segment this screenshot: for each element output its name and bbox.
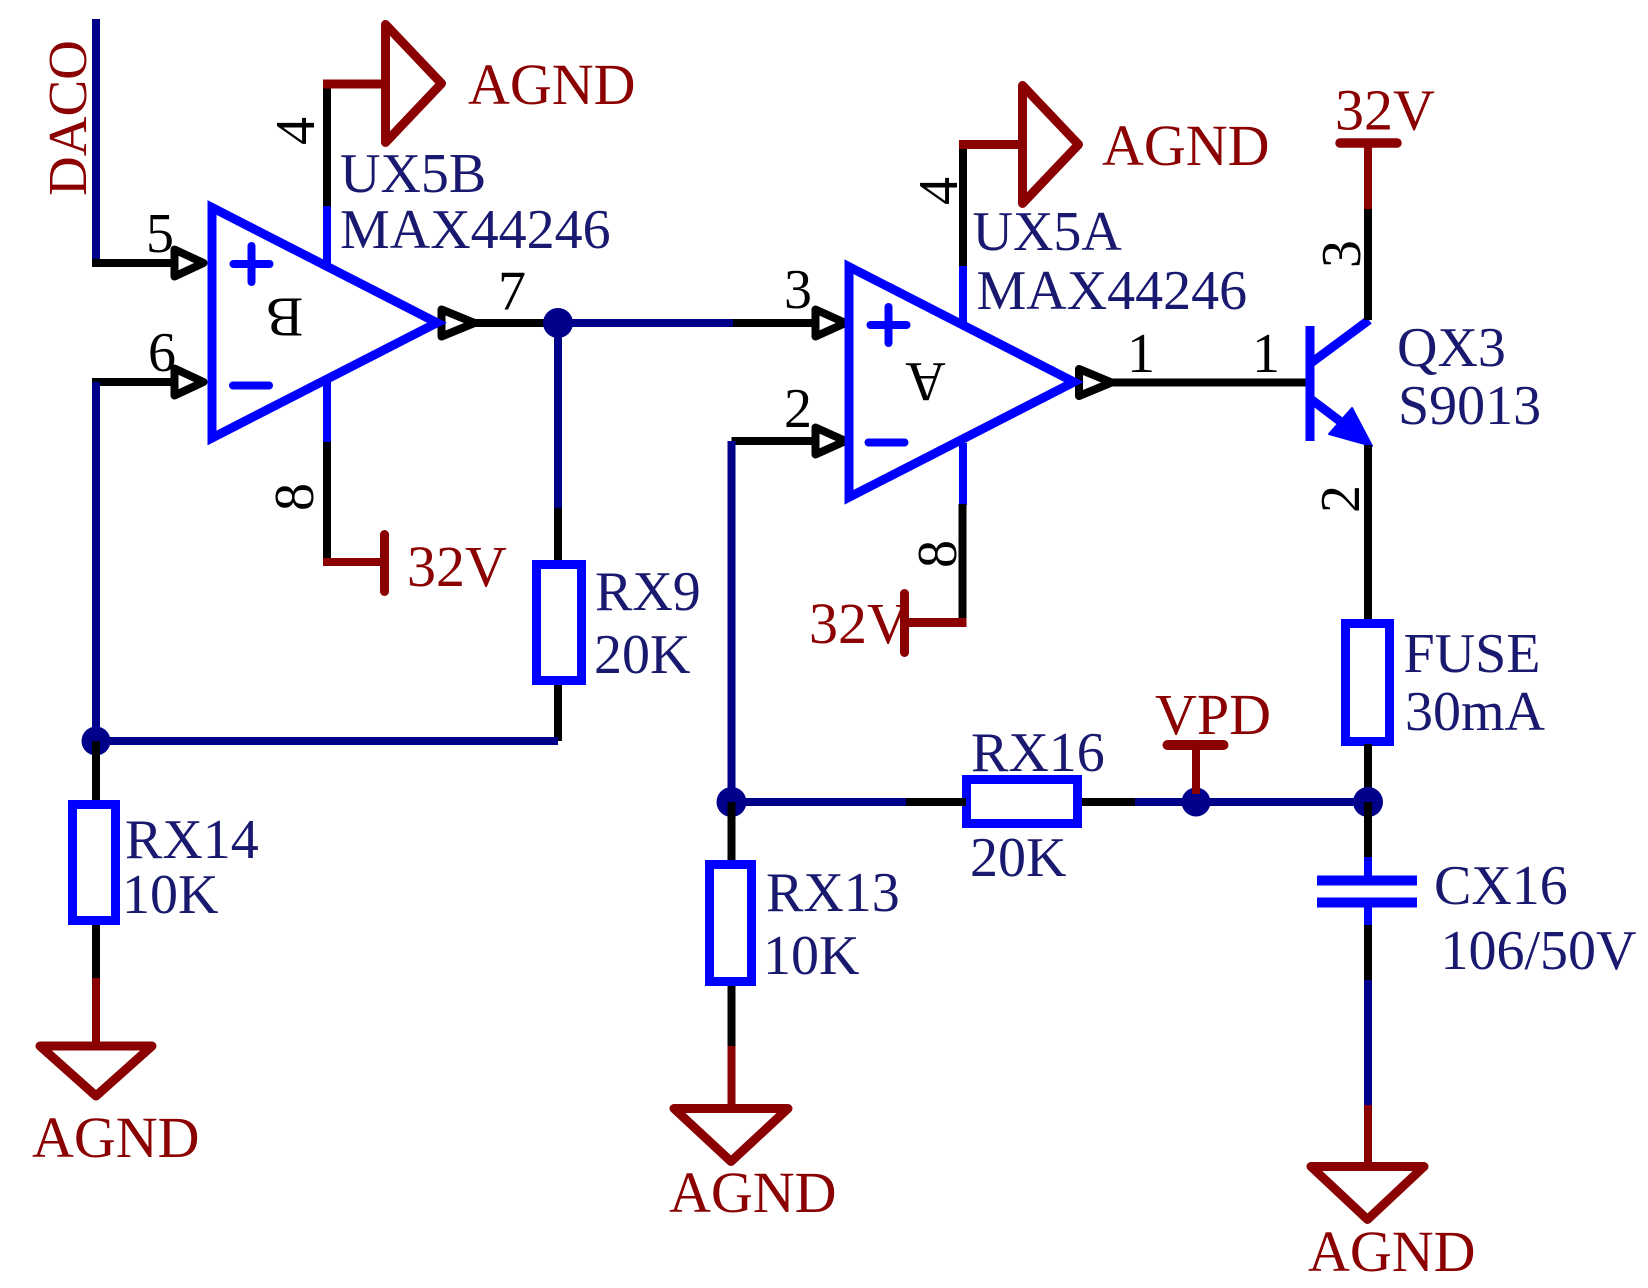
svg-text:2: 2 (784, 378, 812, 440)
fuse FUSE (1346, 624, 1390, 742)
svg-text:2: 2 (1310, 485, 1372, 513)
svg-text:AGND: AGND (669, 1160, 837, 1225)
svg-text:FUSE: FUSE (1404, 623, 1541, 685)
svg-text:AGND: AGND (1308, 1219, 1476, 1284)
svg-text:MAX44246: MAX44246 (977, 260, 1248, 322)
svg-text:3: 3 (784, 259, 812, 321)
svg-text:10K: 10K (763, 925, 859, 987)
svg-text:20K: 20K (970, 827, 1066, 889)
svg-text:B: B (266, 286, 303, 348)
svg-text:4: 4 (265, 117, 327, 145)
svg-text:AGND: AGND (32, 1105, 200, 1170)
wire cap top stub (1364, 802, 1372, 860)
svg-text:A: A (905, 350, 946, 412)
junction node out B (543, 308, 573, 338)
pin arrow output UX5A (1079, 369, 1112, 396)
wire fuse bottom stub (1364, 744, 1372, 802)
power AGND bottom-mid (674, 1046, 788, 1162)
wire feedback horizontal (96, 737, 558, 745)
wire pin4 UX5A (959, 144, 967, 266)
svg-text:RX9: RX9 (595, 561, 701, 623)
wire pin8 UX5B (323, 442, 331, 562)
wire mid net horizontal (732, 798, 907, 806)
wire RX14 top stub (92, 741, 100, 804)
wire cap to ground net (1364, 980, 1372, 1107)
junction node VPD tap (1182, 788, 1211, 817)
resistor RX14 (73, 805, 116, 921)
wire base (1111, 379, 1306, 387)
svg-text:3: 3 (1311, 240, 1373, 268)
op-amp UX5B (212, 208, 437, 439)
junction node feedback (82, 727, 111, 756)
svg-text:QX3: QX3 (1397, 317, 1506, 379)
wire RX9 top stub (554, 508, 562, 564)
wire emitter (1364, 445, 1372, 621)
svg-text:106/50V: 106/50V (1441, 920, 1637, 982)
svg-text:RX13: RX13 (766, 862, 900, 924)
wire cap bottom stub (1364, 925, 1372, 981)
svg-text:32V: 32V (407, 534, 507, 599)
pin 4 stub UX5A (959, 264, 967, 323)
wire RX16 right stub (1082, 798, 1135, 806)
wire pin5 horizontal (92, 259, 175, 267)
svg-text:UX5B: UX5B (340, 143, 486, 205)
wire pin2 horizontal (732, 437, 817, 445)
wire pin6 horizontal (92, 378, 175, 386)
svg-text:CX16: CX16 (1434, 855, 1568, 917)
svg-text:1: 1 (1127, 323, 1155, 385)
wire RX13 top stub (728, 802, 736, 865)
svg-text:UX5A: UX5A (973, 201, 1123, 263)
wire RX16 left stub (906, 798, 966, 806)
svg-text:32V: 32V (809, 591, 909, 656)
wire pin8 UX5A (959, 504, 967, 620)
wire pin4 UX5B (323, 84, 331, 206)
wire RX9 bottom stub (554, 685, 562, 741)
svg-text:DACO: DACO (37, 40, 98, 196)
resistor RX9 (537, 565, 582, 681)
svg-text:30mA: 30mA (1405, 681, 1546, 743)
resistor RX13 (710, 865, 752, 982)
wire RX13 bottom stub (728, 986, 736, 1048)
svg-text:RX16: RX16 (971, 722, 1105, 784)
wire pin2 vertical net (728, 441, 736, 802)
power AGND mid (959, 86, 1079, 204)
pin arrow output UX5B (442, 310, 475, 337)
wire pin7 (474, 319, 547, 327)
wire collector (1364, 207, 1372, 320)
svg-text:AGND: AGND (1102, 113, 1270, 178)
svg-text:8: 8 (907, 540, 969, 568)
wire left vertical net (92, 382, 100, 741)
resistor RX16 (967, 780, 1078, 824)
svg-text:10K: 10K (122, 864, 218, 926)
svg-text:1: 1 (1252, 323, 1280, 385)
pin 8 stub UX5A (959, 443, 967, 505)
power 32V top-right (1340, 143, 1397, 209)
power 32V mid (904, 594, 967, 653)
svg-text:4: 4 (908, 177, 970, 205)
pin 4 stub UX5B (323, 204, 331, 264)
pin arrow 3 (816, 310, 846, 337)
junction node RX13 top (717, 787, 747, 817)
pin arrow 2 (816, 428, 846, 455)
svg-text:MAX44246: MAX44246 (340, 199, 611, 261)
svg-text:AGND: AGND (468, 52, 636, 117)
wire net out B (547, 319, 733, 327)
power AGND top-left (323, 25, 442, 143)
wire RX14 bottom stub (92, 925, 100, 980)
svg-text:8: 8 (264, 483, 326, 511)
wire down to RX9 (554, 323, 562, 510)
svg-text:S9013: S9013 (1398, 375, 1541, 437)
pin 8 stub UX5B (323, 380, 331, 443)
svg-text:5: 5 (146, 203, 174, 265)
wire RX16 right net (1135, 798, 1368, 806)
transistor QX3 (1310, 320, 1372, 446)
power VPD (1168, 745, 1224, 794)
pin arrow 5 (175, 250, 204, 277)
svg-text:20K: 20K (594, 624, 690, 686)
svg-text:VPD: VPD (1155, 682, 1271, 747)
op-amp UX5A (849, 267, 1074, 498)
power 32V lower-left (323, 535, 385, 592)
junction node emitter net (1353, 787, 1383, 817)
svg-text:6: 6 (148, 322, 176, 384)
capacitor CX16 (1317, 857, 1417, 927)
wire pin3 horizontal (733, 319, 816, 327)
svg-text:32V: 32V (1335, 78, 1435, 143)
svg-text:7: 7 (498, 261, 526, 323)
pin arrow 6 (175, 369, 204, 396)
svg-text:RX14: RX14 (125, 809, 259, 871)
power AGND bottom-right (1311, 1105, 1424, 1220)
power AGND bottom-left (40, 978, 152, 1096)
wire DACO vertical (92, 19, 100, 263)
